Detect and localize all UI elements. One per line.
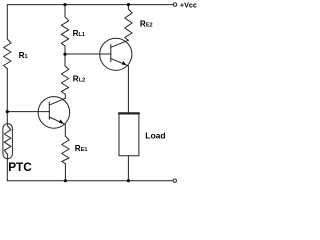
wire Q1 base	[7, 111, 49, 113]
svg-text:R1: R1	[19, 51, 28, 60]
terminal bottom right	[173, 179, 176, 182]
wire load to bottom rail	[127, 156, 129, 181]
node junction RL1/RL2 base	[63, 53, 66, 56]
wire Q2 base	[65, 53, 111, 55]
terminal +Vcc	[173, 3, 176, 6]
svg-text:RL2: RL2	[73, 74, 85, 83]
wire RL2 to Q1 collector	[64, 94, 66, 98]
wire RE1 to bottom rail	[64, 164, 66, 181]
svg-text:Load: Load	[145, 131, 165, 141]
resistor RL1	[61, 17, 68, 46]
wire top rail	[7, 4, 173, 6]
load box	[119, 113, 139, 156]
thermistor PTC element	[4, 125, 11, 159]
thermistor PTC body	[3, 124, 13, 159]
wire RE2 branch top	[127, 5, 129, 9]
arrow Q2 emitter	[122, 61, 127, 65]
wire bottom rail	[7, 180, 173, 182]
svg-text:RL1: RL1	[73, 29, 85, 38]
svg-text:+Vcc: +Vcc	[180, 0, 197, 9]
svg-text:PTC: PTC	[8, 160, 32, 174]
wire middle branch top	[64, 5, 66, 17]
wire between RL1 and RL2	[64, 46, 66, 66]
resistor RL2	[61, 66, 68, 94]
wire left rail upper	[6, 5, 8, 39]
node junction top RL1	[63, 3, 66, 6]
wire Q1 emitter down	[64, 124, 66, 136]
node junction bottom load	[127, 179, 130, 182]
wire Q2 emitter down to load	[127, 66, 129, 113]
resistor RE2	[125, 9, 132, 40]
wire left rail middle	[6, 69, 8, 124]
svg-text:RE2: RE2	[140, 20, 153, 29]
transistor Q1	[38, 97, 70, 129]
transistor Q2	[100, 38, 132, 70]
node junction bottom RE1	[64, 179, 67, 182]
node junction top RE2	[127, 3, 130, 6]
svg-text:RE1: RE1	[75, 144, 88, 153]
resistor R1	[4, 39, 11, 69]
arrow Q1 emitter	[59, 119, 64, 123]
wire left rail lower	[6, 159, 8, 181]
node junction left rail base	[6, 110, 9, 113]
resistor RE1	[62, 136, 69, 163]
